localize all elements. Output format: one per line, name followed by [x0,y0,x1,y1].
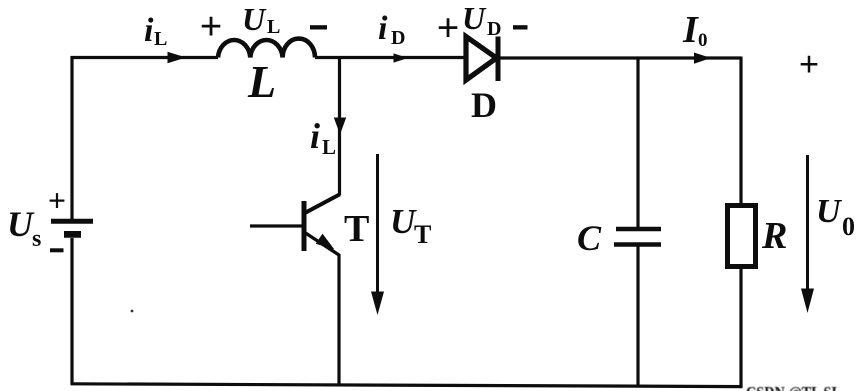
speck [131,310,134,313]
diode D cathode bar [496,37,501,82]
svg-text:+: + [48,182,66,218]
svg-text:C: C [577,218,602,258]
svg-text:D: D [391,27,405,49]
arrow iL current (top-left, right-pointing) [168,52,187,64]
svg-text:U: U [7,204,35,244]
arrow U0 voltage head [801,289,814,314]
svg-text:0: 0 [698,30,708,51]
transistor T emitter diagonal [306,233,340,255]
svg-text:D: D [471,85,497,125]
transistor T emitter arrow [317,235,334,249]
wire capacitor branch lower [636,245,639,387]
svg-text:T: T [414,220,431,249]
svg-text:L: L [154,28,167,50]
svg-text:U: U [390,202,417,241]
svg-text:R: R [761,215,787,257]
wire output right branch upper (corner to resistor) [739,57,742,207]
arrow iL current (down the transistor branch) [334,118,346,135]
svg-text:U: U [462,0,487,36]
svg-text:CSDN @TL SI: CSDN @TL SI [746,383,837,391]
resistor R body [728,206,756,267]
svg-text:i: i [310,116,320,156]
capacitor C bottom plate [614,242,661,247]
svg-text:T: T [344,208,369,250]
wire output right branch lower (resistor to bottom rail) [739,266,742,388]
label - (diode right) [513,25,528,29]
wire emitter lead vertical down to bottom rail [337,254,340,386]
wire left rail upper (corner down to battery +) [70,56,73,221]
svg-text:U: U [816,193,843,230]
wire bottom rail [71,384,743,387]
wire collector lead diagonal [305,194,340,213]
svg-text:s: s [32,226,41,252]
svg-text:+: + [437,5,460,50]
svg-text:L: L [247,56,276,107]
wire left rail lower (battery - down to bottom rail) [70,238,73,385]
label - (inductor right) [310,25,327,29]
wire inductor to diode (through node) [315,56,466,59]
svg-text:i: i [144,12,154,49]
diode D triangle [466,37,497,81]
svg-text:L: L [267,16,280,38]
wire capacitor branch upper [636,58,639,228]
svg-text:U: U [242,1,267,37]
svg-text:0: 0 [842,212,855,241]
wire transistor branch vertical from top node [338,58,341,196]
transistor T base bar [302,201,307,251]
svg-text:i: i [378,10,388,47]
arrow I0 current (right-pointing) [694,53,711,64]
svg-text:I: I [682,9,699,51]
arrow UT voltage head [371,292,384,316]
battery Us short thick plate [64,231,81,238]
inductor L (three humps) [218,39,315,58]
arrow iD current (right-pointing) [394,53,409,62]
wire diode to output corner [500,56,741,59]
svg-text:D: D [487,18,501,40]
arrow UT voltage line [376,154,379,293]
transistor T collector diagonal [306,195,341,214]
battery Us long plate [51,219,93,224]
wire top-left horizontal (source to inductor) [71,56,219,59]
svg-text:+: + [200,4,223,49]
arrow U0 voltage line [806,155,809,290]
svg-text:L: L [322,135,336,159]
svg-text:+: + [799,44,820,84]
label - (battery) [50,248,64,252]
capacitor C top plate [616,227,661,232]
transistor T base lead [250,224,302,227]
